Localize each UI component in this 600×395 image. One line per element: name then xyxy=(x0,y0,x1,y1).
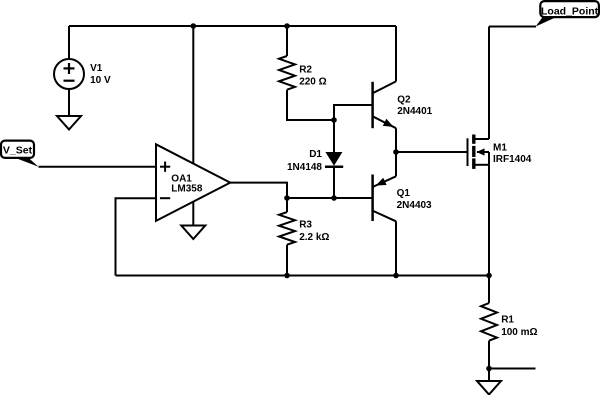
junction top rail / R2 xyxy=(284,23,290,29)
wire op-amp V+ pin xyxy=(192,26,194,164)
wire R2 bottom jog to node xyxy=(287,90,334,120)
svg-text:Load_Point: Load_Point xyxy=(541,5,599,17)
svg-text:Q1: Q1 xyxy=(397,188,411,199)
junction R1 / ground stub xyxy=(486,366,492,372)
wire Q1 emitter rise xyxy=(395,152,397,176)
junction R3 / bottom rail xyxy=(284,273,290,279)
wire Q2 collector drop xyxy=(395,26,397,81)
wire op-amp output xyxy=(230,183,287,198)
wire D1 anode lead xyxy=(333,120,335,152)
svg-text:IRF1404: IRF1404 xyxy=(493,154,532,165)
junction Q1 Q2 emitters / gate xyxy=(393,149,399,155)
wire Q2 emitter drop xyxy=(395,128,397,152)
svg-text:Q2: Q2 xyxy=(397,95,411,106)
transistor Q2 xyxy=(373,81,396,128)
svg-text:V1: V1 xyxy=(90,63,103,74)
junction top rail / op-amp power xyxy=(191,23,197,29)
svg-text:M1: M1 xyxy=(493,143,507,154)
wire ground lead xyxy=(488,369,490,382)
transistor Q1 xyxy=(373,175,396,222)
wire M1 drain riser xyxy=(488,27,490,140)
wire D1 cathode lead xyxy=(333,167,335,198)
wire M1 source drop xyxy=(488,165,490,303)
ground bottom right xyxy=(477,381,501,395)
svg-text:LM358: LM358 xyxy=(171,184,203,195)
junction D1 cathode / base line xyxy=(331,195,337,201)
svg-text:D1: D1 xyxy=(309,149,322,160)
junction Q1 collector / bottom rail xyxy=(393,273,399,279)
svg-text:2N4403: 2N4403 xyxy=(397,200,432,211)
net label V_Set xyxy=(1,141,39,167)
wire feedback from - input xyxy=(116,198,156,275)
svg-text:R2: R2 xyxy=(299,65,312,76)
junction bottom rail / M1 source xyxy=(486,273,492,279)
op-amp OA1 body xyxy=(156,144,230,221)
net label Load_Point xyxy=(536,1,599,26)
wire V_Set to op-amp + input xyxy=(39,166,156,168)
diode D1 xyxy=(325,152,343,167)
wire gate node to M1 xyxy=(396,151,468,153)
resistor R1 xyxy=(481,303,497,341)
resistor R3 xyxy=(279,198,295,276)
svg-text:220 Ω: 220 Ω xyxy=(299,77,326,88)
mosfet M1 xyxy=(468,135,490,169)
ground below V1 xyxy=(57,89,81,130)
ground below op-amp xyxy=(181,226,205,240)
wire Q1 collector drop xyxy=(395,221,397,275)
wire top rail xyxy=(69,25,396,27)
resistor R2 xyxy=(279,26,295,90)
wire bottom rail xyxy=(116,275,490,277)
wire output net to Q1 base xyxy=(287,197,373,199)
wire Load_Point xyxy=(489,26,536,28)
wire Q2 base from node xyxy=(334,105,373,120)
wire V1 top lead xyxy=(68,26,70,59)
svg-text:2N4401: 2N4401 xyxy=(397,106,432,117)
svg-text:1N4148: 1N4148 xyxy=(287,162,322,173)
svg-text:2.2 kΩ: 2.2 kΩ xyxy=(299,232,329,243)
wire R1 bottom lead xyxy=(488,341,490,369)
svg-text:100 mΩ: 100 mΩ xyxy=(501,327,537,338)
wire ground stub right xyxy=(489,368,536,370)
svg-text:R3: R3 xyxy=(299,220,312,231)
voltage source V1 xyxy=(54,59,84,89)
svg-text:R1: R1 xyxy=(501,315,514,326)
svg-text:V_Set: V_Set xyxy=(3,145,33,157)
junction op-amp output / R3 xyxy=(284,195,290,201)
svg-text:10 V: 10 V xyxy=(90,75,111,86)
wire op-amp V- pin xyxy=(192,202,194,226)
junction R2 / D1 / Q2 base node xyxy=(331,117,337,123)
